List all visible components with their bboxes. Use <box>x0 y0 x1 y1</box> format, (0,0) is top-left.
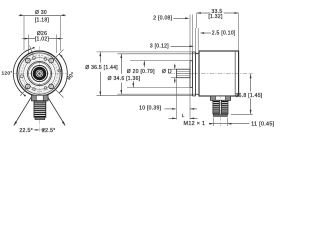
svg-text:2 [0.08]: 2 [0.08] <box>153 16 172 22</box>
svg-text:[1.18]: [1.18] <box>35 17 50 23</box>
svg-text:Ø D: Ø D <box>162 69 172 75</box>
svg-text:22.5°: 22.5° <box>42 128 56 134</box>
svg-text:120°: 120° <box>1 70 12 76</box>
svg-text:M12 × 1: M12 × 1 <box>184 121 206 127</box>
svg-text:[1.32]: [1.32] <box>208 14 223 20</box>
svg-text:Ø 36.5 [1.44]: Ø 36.5 [1.44] <box>85 65 118 71</box>
svg-text:[1.02]: [1.02] <box>35 36 50 42</box>
svg-text:10 [0.39]: 10 [0.39] <box>139 105 161 111</box>
svg-text:22.5°: 22.5° <box>19 128 33 134</box>
svg-text:3 [0.12]: 3 [0.12] <box>150 44 169 50</box>
svg-text:L: L <box>182 113 185 118</box>
svg-text:11 [0.45]: 11 [0.45] <box>251 121 274 127</box>
svg-text:2.5 [0.10]: 2.5 [0.10] <box>212 31 236 37</box>
svg-text:Ø 20 [0.79]: Ø 20 [0.79] <box>127 69 155 75</box>
svg-text:Ø 34.6 [1.36]: Ø 34.6 [1.36] <box>108 76 141 82</box>
svg-text:36.8 [1.45]: 36.8 [1.45] <box>236 93 263 99</box>
